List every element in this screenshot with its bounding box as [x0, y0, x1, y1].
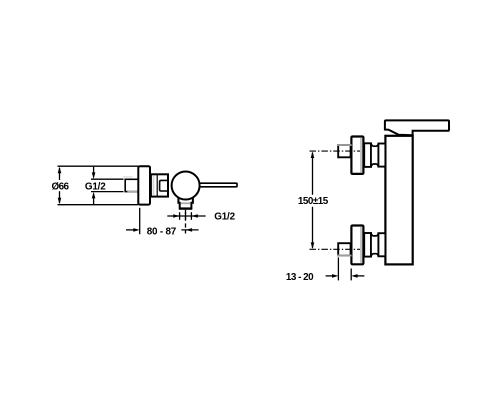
- svg-text:13 - 20: 13 - 20: [286, 272, 314, 283]
- svg-text:G1/2: G1/2: [85, 181, 106, 192]
- svg-text:Ø66: Ø66: [51, 181, 69, 192]
- svg-text:80 - 87: 80 - 87: [147, 227, 177, 238]
- svg-text:150±15: 150±15: [298, 196, 329, 207]
- svg-text:G1/2: G1/2: [214, 212, 235, 223]
